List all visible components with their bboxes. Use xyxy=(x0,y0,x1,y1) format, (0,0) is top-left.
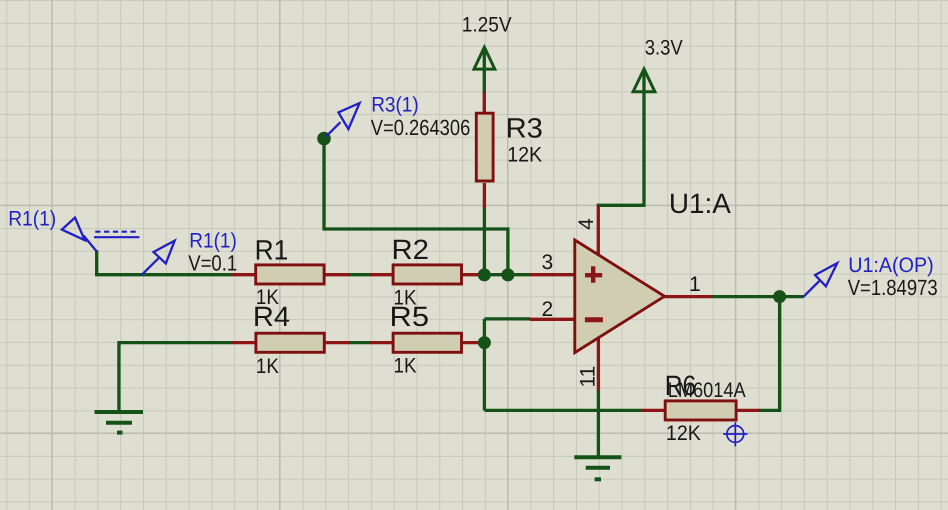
lead R3 top xyxy=(483,92,486,113)
wire 1.25V arrow stem xyxy=(483,49,486,94)
lead R6 right xyxy=(735,409,760,412)
wire R3 bottom to junction xyxy=(483,207,486,276)
pin number 11 (rotated) xyxy=(576,366,599,388)
probe R3(1) xyxy=(326,103,360,137)
probe label R1(1) xyxy=(188,229,237,275)
svg-text:R2: R2 xyxy=(392,234,430,265)
svg-text:V=0.1: V=0.1 xyxy=(188,251,237,276)
svg-text:3.3V: 3.3V xyxy=(645,37,683,60)
junction node at probe branch (pin3 net) xyxy=(501,268,514,281)
lead R3 bottom xyxy=(483,183,486,208)
svg-text:R3(1): R3(1) xyxy=(371,93,419,116)
resistor R4 xyxy=(253,301,324,378)
pin number 2 xyxy=(542,298,554,321)
power symbol 1.25V xyxy=(462,14,512,70)
svg-text:3: 3 xyxy=(542,251,554,274)
wire probe R3(1) net xyxy=(322,139,508,276)
generator label R1(1) xyxy=(8,208,56,231)
resistor R6 xyxy=(665,370,736,445)
lead pin 11 stub xyxy=(597,339,600,391)
junction node at probe R3(1) xyxy=(317,132,331,146)
svg-text:R5: R5 xyxy=(390,301,430,332)
probe U1:A(OP) xyxy=(803,263,837,297)
svg-text:V=1.84973: V=1.84973 xyxy=(848,275,938,300)
svg-text:U1:A: U1:A xyxy=(669,188,731,219)
op-amp U1:A xyxy=(575,188,731,353)
generator arrow R1(1) xyxy=(62,218,97,252)
svg-text:R4: R4 xyxy=(253,301,290,332)
lead R5 right xyxy=(462,341,480,344)
op-amp part number LM6014A xyxy=(668,379,746,402)
lead pin 1 output stub xyxy=(664,295,712,298)
lead R2 left xyxy=(370,273,393,276)
lead R5 left xyxy=(370,341,393,344)
ground symbol left xyxy=(95,412,144,433)
svg-text:R1(1): R1(1) xyxy=(189,229,237,252)
generator DC symbol at input xyxy=(94,232,139,238)
lead R1 left xyxy=(232,273,256,276)
svg-text:11: 11 xyxy=(576,366,599,388)
svg-text:1K: 1K xyxy=(256,355,279,378)
probe label U1:A(OP) xyxy=(848,254,938,300)
wire node under pin3 junctions xyxy=(479,273,530,276)
svg-text:1: 1 xyxy=(689,273,701,296)
svg-text:12K: 12K xyxy=(507,144,542,167)
pin number 4 (rotated) xyxy=(575,218,598,230)
pin number 3 xyxy=(542,251,554,274)
lead R2 right xyxy=(462,273,480,276)
wire link R4 to R5 xyxy=(349,341,371,344)
ground symbol below pin 11 xyxy=(574,457,621,479)
svg-text:R1: R1 xyxy=(255,234,289,265)
wire pin11 to ground xyxy=(597,390,600,458)
probe label R3(1) xyxy=(371,93,471,140)
svg-text:LM6014A: LM6014A xyxy=(668,379,746,402)
svg-text:R1(1): R1(1) xyxy=(8,208,56,231)
wire input net from generator corner to R1 xyxy=(95,250,232,274)
junction node at R5 right xyxy=(478,336,491,349)
svg-text:2: 2 xyxy=(542,298,554,321)
resistor R5 xyxy=(390,301,462,377)
lead R4 left xyxy=(232,341,256,344)
resistor R1 xyxy=(255,234,325,309)
svg-text:1.25V: 1.25V xyxy=(462,14,512,37)
origin marker (blue crosshair) xyxy=(723,422,747,446)
svg-text:4: 4 xyxy=(575,218,598,230)
lead pin 3 stub xyxy=(530,273,575,276)
lead R4 right xyxy=(325,341,350,344)
svg-text:1K: 1K xyxy=(394,354,417,377)
svg-text:U1:A(OP): U1:A(OP) xyxy=(848,254,934,277)
wire output net with feedback branch to R6 right xyxy=(711,297,803,411)
junction node at output xyxy=(773,290,786,303)
probe R1(1) on input wire xyxy=(141,241,175,276)
power symbol 3.3V xyxy=(633,37,683,92)
svg-text:12K: 12K xyxy=(666,422,701,445)
wire R4 net to left ground xyxy=(117,343,232,411)
pin number 1 xyxy=(689,273,701,296)
junction node at R2/R3 (pin3 net) xyxy=(478,268,491,281)
wire pin4 to 3.3V arrow xyxy=(597,71,644,207)
lead pin 2 stub xyxy=(530,318,575,321)
wire link R1 to R2 xyxy=(349,273,371,276)
svg-text:R3: R3 xyxy=(506,113,543,144)
lead pin 4 stub xyxy=(597,206,600,258)
resistor R2 xyxy=(392,234,462,310)
wire R5 junction up to pin2 xyxy=(484,319,530,343)
resistor R3 (vertical) xyxy=(476,113,543,182)
lead R1 right xyxy=(325,273,350,276)
wire feedback from R5 junction down to R6 left xyxy=(484,343,642,411)
svg-text:V=0.264306: V=0.264306 xyxy=(371,115,471,140)
lead R6 left xyxy=(642,409,666,412)
